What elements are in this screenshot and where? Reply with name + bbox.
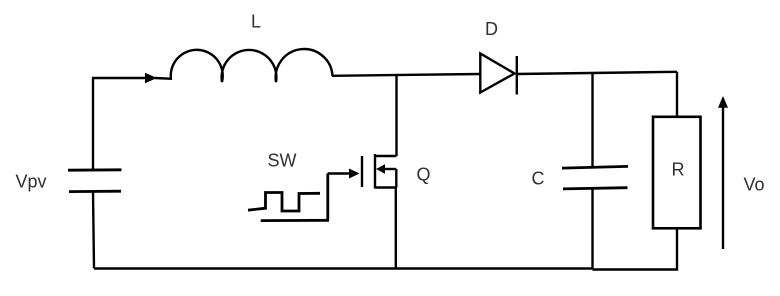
transistor Q (MOSFET) (362, 154, 397, 189)
wire: capacitor C bottom lead (591, 189, 593, 269)
wire: left vertical from top wire down to Vpv capacitor (92, 78, 94, 170)
wire: resistor bottom lead (593, 228, 678, 269)
label Vo (744, 175, 765, 195)
wire: bottom rail MOSFET source to capacitor C (396, 267, 593, 269)
wire: diode cathode to top-right corner (517, 72, 677, 74)
label Q (417, 165, 431, 185)
svg-text:Vpv: Vpv (16, 172, 47, 192)
wire: MOSFET source down to bottom rail (395, 188, 397, 269)
diode D (480, 54, 517, 95)
wire: capacitor C top lead from top wire (591, 73, 593, 167)
wire: inductor to diode anode (332, 74, 480, 76)
label Vpv (16, 172, 47, 192)
capacitor C (562, 166, 628, 189)
label L (251, 12, 261, 32)
resistor R (653, 117, 701, 229)
svg-text:D: D (485, 19, 498, 39)
inductor L (171, 49, 333, 82)
label C (532, 169, 545, 189)
wire: top-left horizontal from corner to current arrow (92, 77, 146, 79)
wire: SW drive reference horizontal (261, 219, 329, 222)
label D (485, 19, 498, 39)
output arrow Vo (718, 96, 728, 249)
svg-text:Q: Q (417, 165, 431, 185)
wire: SW drive connector vertical (326, 174, 329, 221)
svg-text:C: C (532, 169, 545, 189)
node: MOSFET drain junction on top wire (395, 76, 397, 157)
wire: bottom ground rail (94, 267, 396, 269)
wire: gate lead with arrow into MOSFET gate (328, 169, 360, 179)
svg-text:R: R (672, 160, 685, 180)
svg-text:Vo: Vo (744, 175, 765, 195)
current arrow on top wire (145, 73, 172, 83)
svg-text:SW: SW (268, 151, 297, 171)
svg-text:L: L (251, 12, 261, 32)
label SW (268, 151, 297, 171)
label R (672, 160, 685, 180)
source capacitor Vpv (68, 170, 122, 192)
wire: top-right corner down to resistor R (676, 72, 678, 117)
SW pulse waveform (248, 193, 320, 212)
wire: Vpv bottom lead down to ground rail (93, 192, 94, 269)
